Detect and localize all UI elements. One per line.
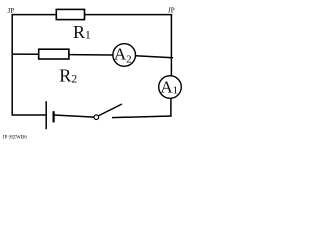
wire below A1 xyxy=(170,98,172,116)
battery positive plate (long) xyxy=(45,101,47,129)
switch pivot xyxy=(94,115,99,120)
switch lever xyxy=(99,104,123,116)
wire left vertical xyxy=(11,14,13,116)
battery negative plate (short) xyxy=(52,111,54,122)
wire middle-left segment xyxy=(12,53,39,55)
wire top-right segment xyxy=(84,14,172,16)
wire R2 to A2 xyxy=(69,54,113,56)
wire right vertical upper (top corner to node) xyxy=(170,14,172,58)
resistor R2 xyxy=(39,49,69,59)
wire battery to switch xyxy=(54,115,94,117)
ammeter A2 xyxy=(113,44,136,67)
svg-text:JP: JP xyxy=(168,7,175,15)
node junction middle-right xyxy=(170,58,172,76)
ammeter A1 xyxy=(159,76,182,99)
wire top-left segment xyxy=(12,14,57,16)
svg-text:JP: JP xyxy=(8,7,15,15)
resistor R1 xyxy=(56,9,84,19)
svg-text:JP·HZWB6: JP·HZWB6 xyxy=(3,136,28,141)
wire A2 to right node xyxy=(136,56,174,58)
wire bottom-right segment (switch fixed contact to corner) xyxy=(112,116,172,118)
wire bottom-left segment xyxy=(12,114,46,116)
